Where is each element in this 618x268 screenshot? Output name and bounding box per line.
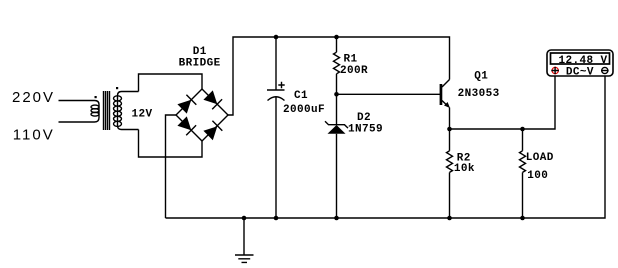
- wire 220V lead and transformer primary outline: [59, 101, 100, 123]
- wire bridge minus to bottom rail: [166, 115, 177, 218]
- node junction dot C1 bottom: [274, 216, 279, 221]
- wire R1 bottom to zener: [336, 74, 338, 125]
- voltmeter U1 plus terminal: [552, 67, 558, 73]
- transistor Q1 collector diagonal: [442, 80, 450, 88]
- wire secondary bottom to bridge AC bottom: [139, 130, 203, 158]
- wire emitter rail to meter plus: [450, 76, 556, 129]
- transformer T1 core: [104, 91, 110, 130]
- wire Q1 emitter lead: [449, 108, 451, 130]
- capacitor C1 plus sign: [278, 82, 284, 88]
- voltmeter U1 minus terminal: [602, 67, 608, 73]
- svg-text:D1: D1: [193, 46, 207, 58]
- resistor R1: [334, 52, 340, 74]
- wire C1 top lead: [275, 37, 277, 90]
- wire LOAD top lead: [522, 129, 524, 151]
- svg-text:1N759: 1N759: [348, 124, 383, 136]
- diode D1a top-left: [177, 100, 191, 114]
- capacitor C1 plus plate: [267, 89, 285, 91]
- svg-text:100: 100: [527, 170, 548, 182]
- wire D2 bottom lead: [336, 134, 338, 218]
- svg-text:110V: 110V: [13, 127, 55, 144]
- ground: [235, 218, 254, 262]
- svg-text:2000uF: 2000uF: [283, 104, 325, 116]
- transformer T1 primary loops: [91, 105, 99, 109]
- wire R2 top lead: [449, 129, 451, 151]
- node junction dot base node: [334, 92, 339, 97]
- node junction dot emitter: [447, 127, 452, 132]
- wire bridge plus up and top rail to collector: [228, 37, 450, 115]
- voltmeter U1 outer box: [547, 50, 613, 76]
- svg-text:R1: R1: [344, 53, 358, 65]
- node junction dot ground: [242, 216, 247, 221]
- svg-text:12V: 12V: [132, 109, 153, 121]
- diode D1b top-right: [203, 90, 217, 104]
- zener D2 triangle: [328, 125, 346, 134]
- wire C1 bottom lead: [275, 97, 277, 218]
- svg-text:BRIDGE: BRIDGE: [179, 58, 221, 70]
- node junction dot LOAD bottom: [520, 216, 525, 221]
- transistor Q1 emitter diagonal: [442, 101, 449, 107]
- diode D1c bottom-left: [177, 116, 191, 130]
- transistor Q1 base bar: [440, 84, 443, 105]
- node junction dot R1 top: [334, 35, 339, 40]
- svg-text:D2: D2: [357, 112, 371, 124]
- node junction dot D2 bottom: [334, 216, 339, 221]
- svg-text:DC~V: DC~V: [566, 67, 594, 79]
- diode D1d bottom-right: [203, 126, 217, 140]
- wire LOAD bottom lead: [522, 172, 524, 218]
- svg-text:C1: C1: [294, 90, 308, 102]
- resistor LOAD: [520, 151, 526, 173]
- capacitor C1 curved plate: [268, 97, 285, 101]
- svg-text:10k: 10k: [454, 163, 475, 175]
- transformer T1 secondary polarity dot: [116, 87, 118, 89]
- wire bottom rail and meter minus lead: [166, 76, 606, 218]
- transformer T1 secondary loops: [114, 96, 122, 101]
- transformer T1 secondary outline: [118, 92, 139, 130]
- svg-text:220V: 220V: [12, 89, 55, 106]
- resistor R2: [447, 151, 453, 173]
- node junction dot C1 top: [274, 35, 279, 40]
- node junction dot load top: [520, 127, 525, 132]
- svg-text:2N3053: 2N3053: [458, 88, 500, 100]
- svg-text:LOAD: LOAD: [526, 152, 554, 164]
- svg-text:200R: 200R: [340, 65, 368, 77]
- transistor Q1 emitter arrow: [444, 102, 450, 108]
- svg-text:12.48 V: 12.48 V: [559, 55, 608, 67]
- svg-text:Q1: Q1: [474, 70, 488, 82]
- node junction dot R2 bottom: [447, 216, 452, 221]
- wire secondary top to bridge AC top: [139, 74, 203, 92]
- wire R2 bottom lead: [449, 172, 451, 218]
- wire base node to Q1 base: [337, 93, 441, 95]
- bridge D1 diamond: [176, 89, 228, 141]
- wire R1 top lead: [336, 37, 338, 52]
- zener D2 cathode bar: [325, 121, 348, 128]
- voltmeter U1 display box: [551, 53, 610, 64]
- transformer T1 primary polarity dot: [95, 96, 97, 98]
